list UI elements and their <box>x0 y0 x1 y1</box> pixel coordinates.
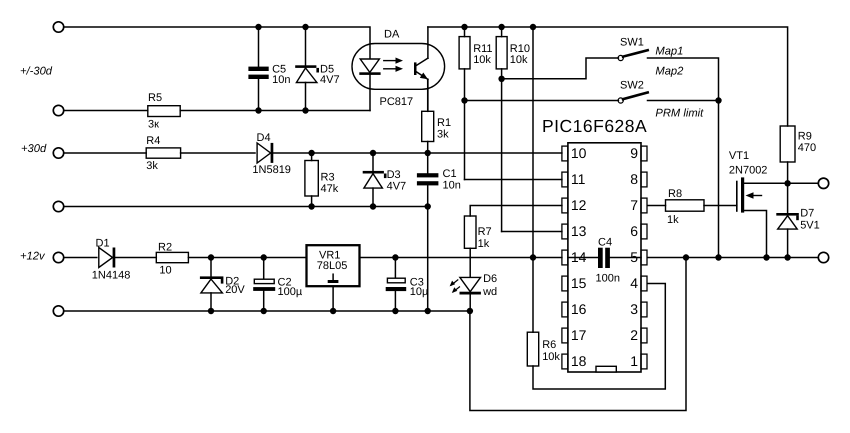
PIC pin box 18 <box>562 354 568 369</box>
PIC pin box 1 <box>641 354 647 369</box>
node dot rail D end at C1 column <box>425 203 431 209</box>
svg-text:18: 18 <box>571 353 587 369</box>
svg-text:1N4148: 1N4148 <box>92 270 131 282</box>
PIC pin box 3 <box>641 302 647 317</box>
node dot D5 top <box>302 24 308 30</box>
wire rail E +12v from T5 to D1 <box>64 257 97 259</box>
LED D6 emission arrows <box>451 280 458 285</box>
optocoupler DA PC817 body <box>352 44 445 90</box>
node dot C5 bottom <box>255 107 261 113</box>
svg-text:16: 16 <box>571 301 587 317</box>
svg-text:5: 5 <box>630 249 638 265</box>
capacitor C3 10u electrolytic <box>394 258 396 279</box>
wire PIC pin 12 to R7 <box>470 206 562 217</box>
svg-text:D1: D1 <box>96 237 110 249</box>
svg-text:100µ: 100µ <box>278 286 303 298</box>
capacitor C2 100u electrolytic <box>263 258 265 280</box>
svg-text:+/-30d: +/-30d <box>20 66 53 78</box>
svg-text:SW1: SW1 <box>620 37 644 49</box>
wire R8 to VT1 gate <box>704 205 737 207</box>
diode D1 1N4148 <box>99 248 113 268</box>
wire rail B from T2 to LED cathode <box>64 110 148 112</box>
PIC pin box 14 <box>562 250 568 265</box>
svg-text:R7: R7 <box>478 226 492 238</box>
svg-text:PRM limit: PRM limit <box>655 107 704 119</box>
switch SW1 <box>618 55 623 60</box>
node dot SW column <box>715 97 721 103</box>
wire VR1 gnd to rail F <box>332 286 334 311</box>
wire PIC pin7 to R8 <box>648 205 666 207</box>
PIC pin box 12 <box>562 198 568 213</box>
wire SW1 to gnd column <box>648 58 719 258</box>
PIC pin box 5 <box>641 250 647 265</box>
voltage regulator VR1 78L05 box <box>307 245 360 286</box>
wire pin14 to C4 inside chip <box>568 257 598 259</box>
svg-text:78L05: 78L05 <box>317 260 348 272</box>
resistor R3 47k <box>311 153 313 161</box>
svg-text:R5: R5 <box>148 92 162 104</box>
PIC pin box 6 <box>641 224 647 239</box>
node dot D2 top <box>208 254 214 260</box>
node dot VR1 gnd bottom <box>330 308 336 314</box>
zener diode D3 4V7 <box>372 153 374 171</box>
wire C4 to pin5 inside chip <box>610 257 641 259</box>
wire rail C from T3 to PIC pin 10 <box>64 152 146 154</box>
svg-text:R8: R8 <box>668 188 682 200</box>
PIC16F628A U1 body <box>568 143 641 372</box>
node dot SW gnd <box>715 254 721 260</box>
diode D4 1N5819 <box>257 143 271 163</box>
wire VT1 drain to T7 <box>744 182 818 184</box>
svg-text:4: 4 <box>630 275 638 291</box>
LED D6 wd <box>460 277 481 291</box>
wire C1 bottom down to gnd rail F <box>427 185 429 311</box>
svg-text:PIC16F628A: PIC16F628A <box>542 116 647 136</box>
zener diode D5 4V7 <box>295 65 316 68</box>
svg-text:8: 8 <box>630 171 638 187</box>
svg-text:2N7002: 2N7002 <box>729 165 768 177</box>
svg-text:R6: R6 <box>542 339 556 351</box>
node dot R11 bottom SW2 <box>461 97 467 103</box>
optocoupler LED <box>360 59 379 72</box>
transistor VT1 2N7002 gate bar <box>736 182 738 212</box>
node dot C2 bottom <box>261 308 267 314</box>
svg-text:7: 7 <box>630 197 638 213</box>
wire D1 to R2 <box>115 257 156 259</box>
wire rail F gnd from T6 to D6 <box>64 310 470 312</box>
node dot C1 gnd <box>425 308 431 314</box>
node dot R3 top <box>308 150 314 156</box>
svg-text:20V: 20V <box>225 284 245 296</box>
svg-text:D6: D6 <box>483 273 497 285</box>
svg-text:10: 10 <box>159 264 171 276</box>
switch SW2 <box>618 98 623 103</box>
svg-text:R4: R4 <box>146 135 160 147</box>
svg-text:C4: C4 <box>598 237 612 249</box>
node dot D6 gnd junction <box>467 308 473 314</box>
node dot C5 top <box>255 24 261 30</box>
PIC pin box 13 <box>562 224 568 239</box>
wire collector up to rail A-right <box>427 27 429 58</box>
node dot x533 top <box>530 24 536 30</box>
terminal T1 top-left <box>53 22 63 32</box>
PIC pin box 17 <box>562 328 568 343</box>
node dot R10 bottom SW1 <box>498 76 504 82</box>
node dot R10 top <box>498 24 504 30</box>
optocoupler phototransistor <box>414 62 417 75</box>
capacitor C4 100n <box>598 248 603 268</box>
node dot R3 bottom <box>308 203 314 209</box>
wire rail A-right collector to R9 corner <box>428 27 788 126</box>
svg-text:R1: R1 <box>437 117 451 129</box>
terminal T2 <box>53 105 63 115</box>
svg-text:1: 1 <box>630 353 638 369</box>
svg-text:9: 9 <box>630 145 638 161</box>
wire R11 column to PIC pin 11 <box>465 179 562 181</box>
node dot +5V column x533 <box>530 254 536 260</box>
PIC pin box 10 <box>562 146 568 161</box>
wire rail A-left from T1 to optocoupler LED anode <box>64 27 370 59</box>
svg-text:C1: C1 <box>443 168 457 180</box>
svg-text:SW2: SW2 <box>620 80 644 92</box>
svg-text:Map2: Map2 <box>655 66 684 78</box>
svg-text:4V7: 4V7 <box>387 180 407 192</box>
svg-text:4V7: 4V7 <box>320 74 340 86</box>
svg-text:R9: R9 <box>798 130 812 142</box>
svg-text:+30d: +30d <box>21 143 47 155</box>
capacitor C1 10n <box>417 173 439 177</box>
node dot D7 gnd <box>784 254 790 260</box>
optocoupler light arrows <box>384 60 397 62</box>
svg-text:10: 10 <box>571 145 587 161</box>
wire R11 node to SW2 <box>465 100 619 102</box>
svg-text:VT1: VT1 <box>729 150 749 162</box>
zener diode D2 20V <box>210 258 212 277</box>
svg-text:3: 3 <box>630 301 638 317</box>
wire VR1 output to PIC pin 14 <box>360 257 562 259</box>
resistor R8 1k <box>666 200 705 211</box>
node dot C3 top <box>392 254 398 260</box>
transistor VT1 channel bar <box>741 179 744 211</box>
svg-text:10k: 10k <box>473 54 491 66</box>
wire LED cathode down to rail B <box>369 75 371 111</box>
PIC pin box 7 <box>641 198 647 213</box>
PIC pin box 2 <box>641 328 647 343</box>
svg-text:3к: 3к <box>148 118 159 130</box>
PIC pin box 8 <box>641 172 647 187</box>
resistor R5 <box>148 106 180 117</box>
zener diode D7 5V1 <box>787 183 789 213</box>
PIC pin box 11 <box>562 172 568 187</box>
node dot R1/C1 row C <box>425 150 431 156</box>
wire emitter down to R1 <box>427 79 429 111</box>
resistor R9 470 <box>780 126 795 162</box>
node dot VT1 source gnd <box>763 254 769 260</box>
svg-text:PC817: PC817 <box>380 96 414 108</box>
resistor R11 10k <box>464 27 466 37</box>
capacitor C5 <box>248 67 268 71</box>
resistor R4 <box>146 148 180 158</box>
node dot C3 bottom <box>392 308 398 314</box>
PIC pin box 16 <box>562 302 568 317</box>
svg-text:R3: R3 <box>321 171 335 183</box>
svg-text:6: 6 <box>630 223 638 239</box>
wire R10 column to PIC pin 13 <box>502 231 562 233</box>
svg-text:3k: 3k <box>146 160 158 172</box>
wire D5 column <box>305 27 307 65</box>
svg-text:470: 470 <box>798 142 816 154</box>
svg-text:11: 11 <box>571 171 586 187</box>
node dot drain/R9 <box>784 180 790 186</box>
node dot D2 bottom <box>208 308 214 314</box>
resistor R10 10k <box>501 27 503 37</box>
svg-text:2: 2 <box>630 327 638 343</box>
PIC bottom orientation notch <box>596 366 616 372</box>
resistor R6 10k pullup <box>532 258 534 333</box>
resistor R7 1k <box>464 216 476 248</box>
node dot C2 top <box>261 254 267 260</box>
wire R6 bottom loop to PIC pin 4 <box>533 284 665 390</box>
wire R10 node to SW1 <box>502 58 619 79</box>
svg-text:3k: 3k <box>437 128 449 140</box>
node dot D3 top <box>370 150 376 156</box>
svg-text:17: 17 <box>571 327 587 343</box>
svg-text:10n: 10n <box>272 74 290 86</box>
svg-text:12: 12 <box>571 197 587 213</box>
svg-text:1N5819: 1N5819 <box>252 164 291 176</box>
PIC pin box 4 <box>641 276 647 291</box>
svg-text:R2: R2 <box>158 241 172 253</box>
svg-text:DA: DA <box>384 28 400 40</box>
svg-text:10k: 10k <box>510 54 528 66</box>
wire D6 gnd loop to pin5 rail <box>470 258 686 411</box>
wire rail D from T4 <box>64 206 428 208</box>
terminal T6 gnd <box>53 306 63 316</box>
svg-text:13: 13 <box>571 223 587 239</box>
svg-text:D3: D3 <box>387 169 401 181</box>
svg-text:14: 14 <box>571 249 587 265</box>
svg-text:15: 15 <box>571 275 587 291</box>
PIC pin box 9 <box>641 146 647 161</box>
svg-text:wd: wd <box>482 286 497 298</box>
wire +5V column x533 down to pin14 rail <box>532 27 534 258</box>
node dot R11 top <box>461 24 467 30</box>
wire gnd rail G pin5 to T8 <box>648 257 818 259</box>
svg-text:47k: 47k <box>321 183 339 195</box>
wire SW2 to gnd column <box>648 100 719 102</box>
wire C5 column <box>258 27 260 67</box>
svg-text:10n: 10n <box>443 179 461 191</box>
terminal T3 +30d <box>53 148 63 158</box>
transistor VT1 source arrow <box>753 195 762 197</box>
wire VT1 source to gnd rail <box>744 211 766 258</box>
svg-text:100n: 100n <box>596 272 620 284</box>
svg-text:5V1: 5V1 <box>800 219 820 231</box>
PIC pin box 15 <box>562 276 568 291</box>
node dot D3 bottom <box>370 203 376 209</box>
terminal T8 output-gnd <box>818 252 828 262</box>
svg-text:10µ: 10µ <box>410 286 429 298</box>
terminal T4 <box>53 201 63 211</box>
svg-text:1k: 1k <box>667 214 679 226</box>
terminal T7 output-drain <box>818 178 828 188</box>
svg-text:D4: D4 <box>257 132 271 144</box>
VR1 internal ground symbol <box>332 274 334 280</box>
wire R2 to VR1 <box>188 257 306 259</box>
resistor R1 3k <box>427 80 429 112</box>
svg-text:1k: 1k <box>478 238 490 250</box>
terminal T5 +12v <box>53 252 63 262</box>
resistor R2 10 <box>156 252 188 262</box>
node dot D5 bottom <box>302 107 308 113</box>
svg-text:D7: D7 <box>800 207 814 219</box>
svg-text:10k: 10k <box>542 351 560 363</box>
svg-text:Map1: Map1 <box>655 45 683 57</box>
node dot loop gnd <box>683 254 689 260</box>
svg-text:+12v: +12v <box>20 251 46 263</box>
